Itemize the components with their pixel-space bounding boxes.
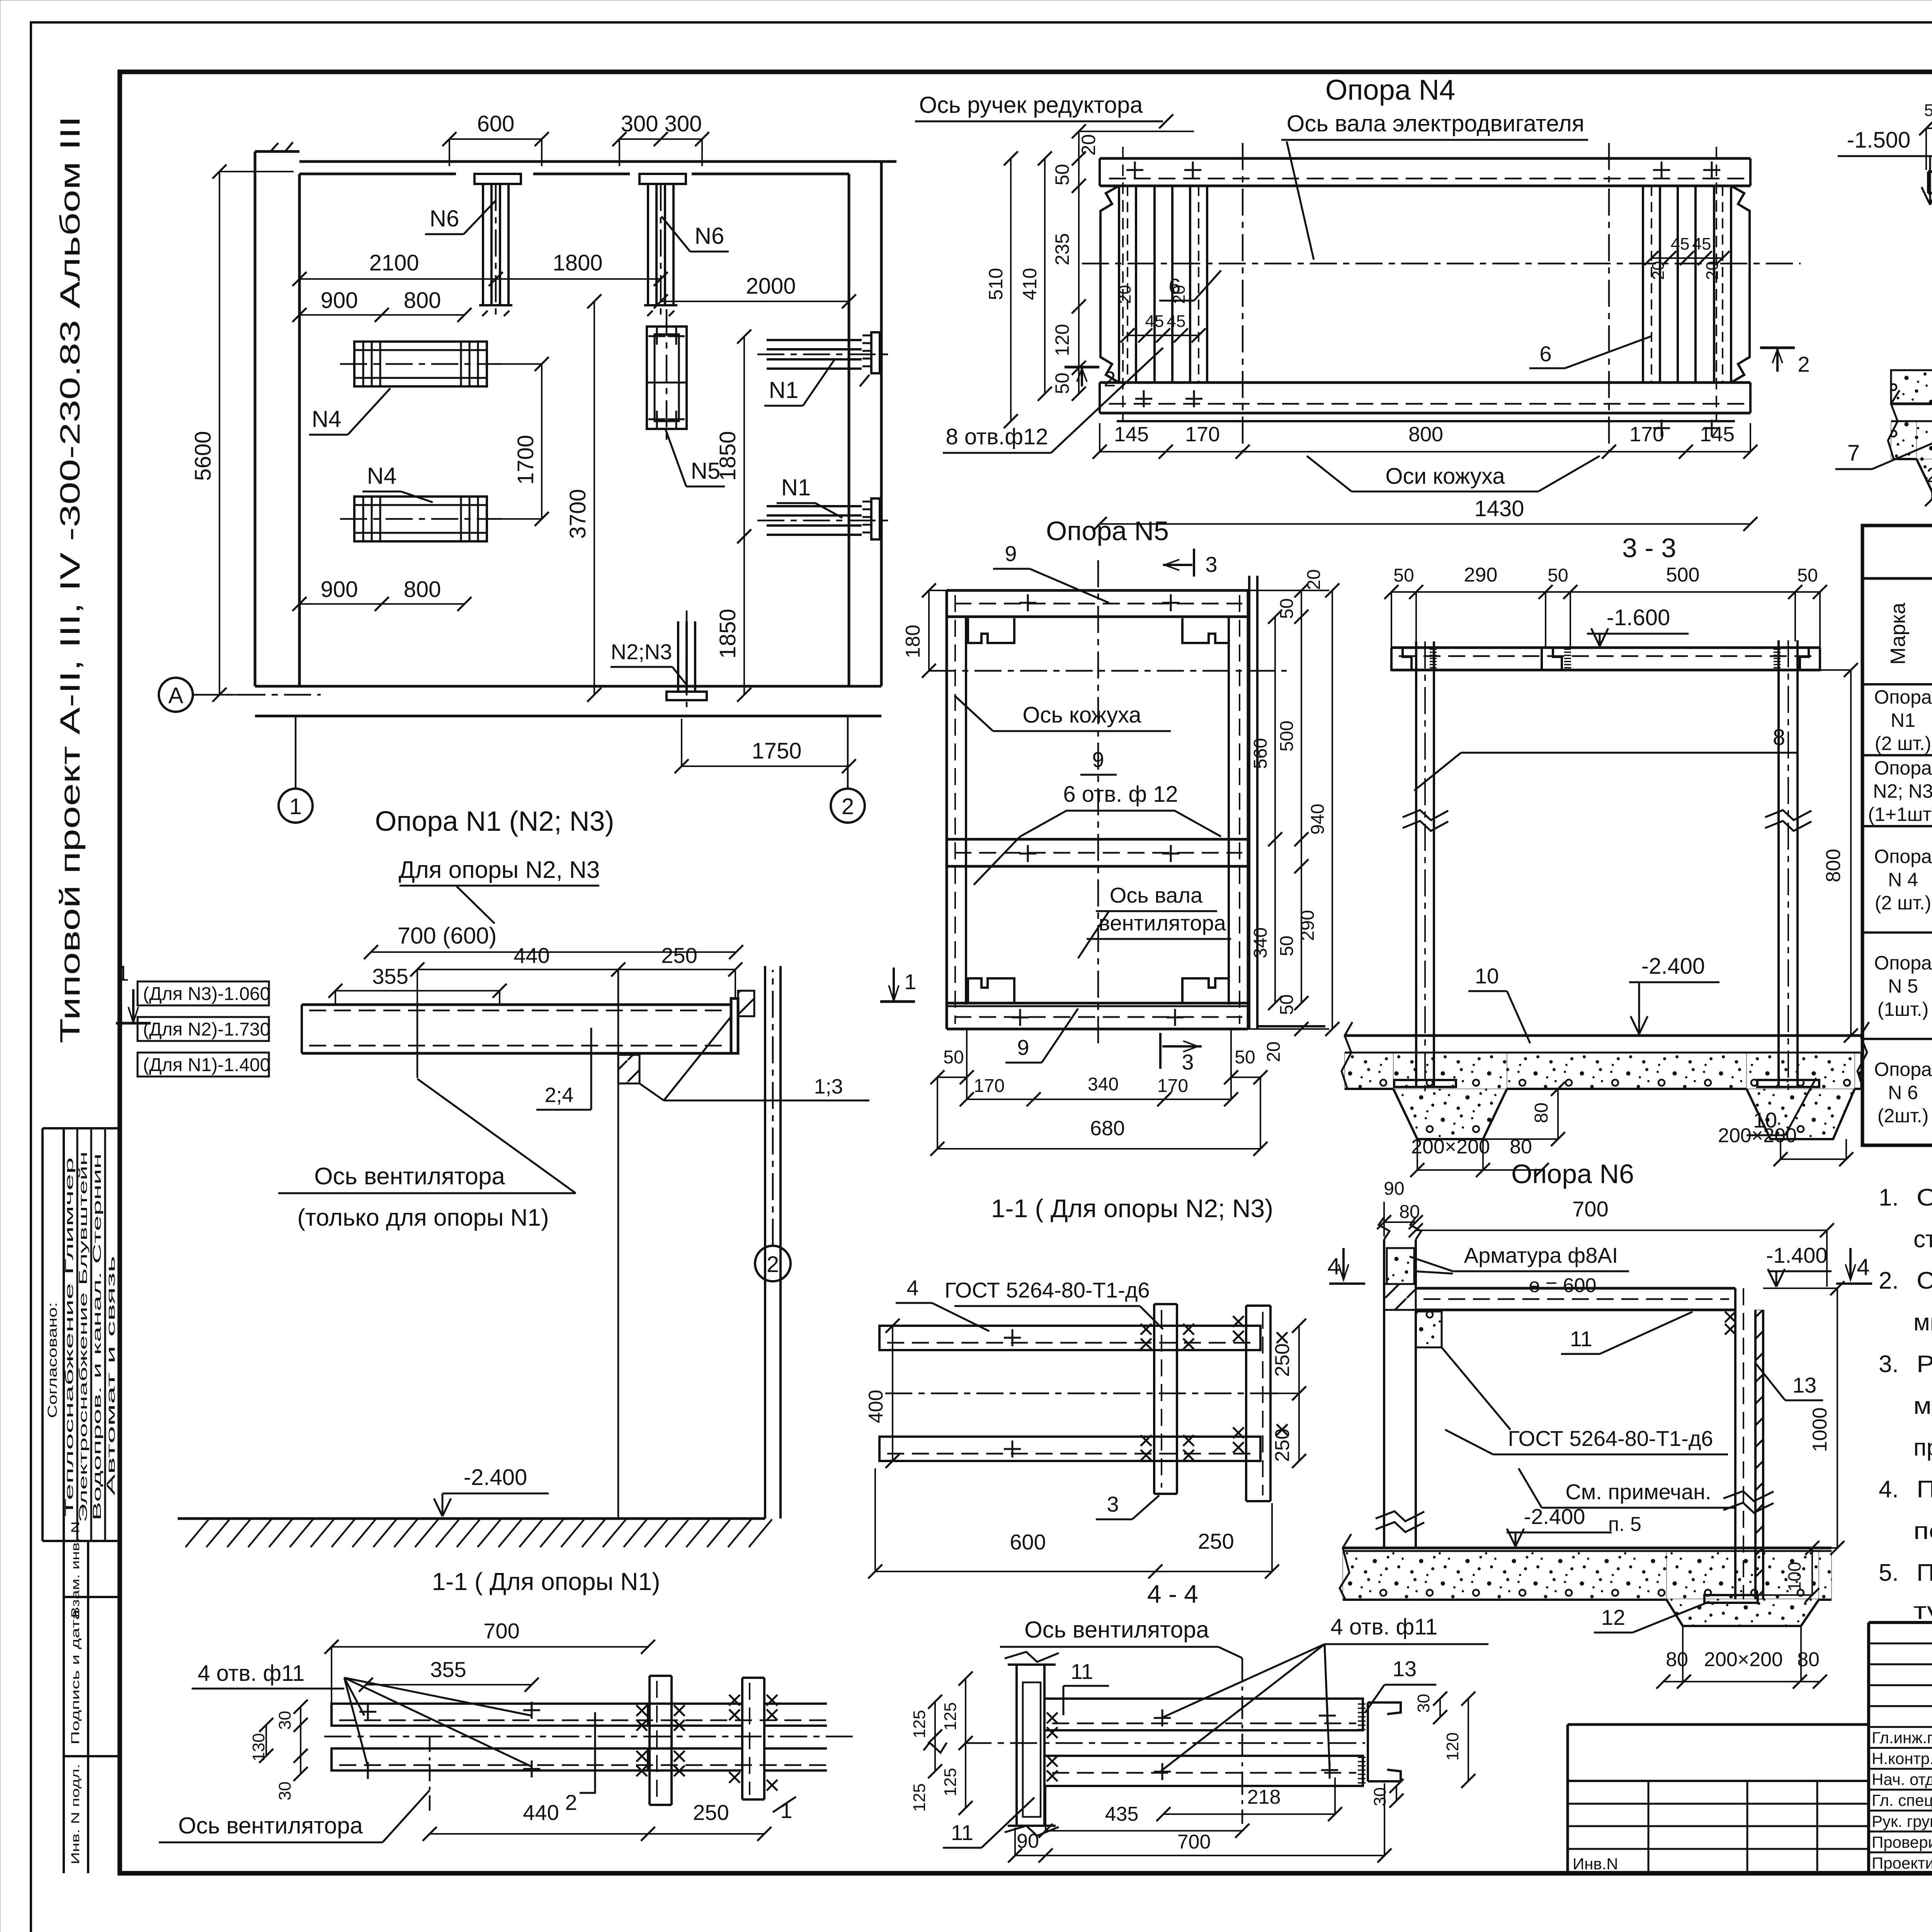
svg-text:После установки опор под: После установки опор под вентиляторы мет…: [1917, 1476, 1932, 1503]
title Опора N1 (N2 N3): [375, 806, 614, 837]
label Ось вентилятора (опора N1): [278, 1079, 576, 1231]
channel mid (1-1 N1): [636, 1676, 685, 1805]
label Ось кожуха (N5): [954, 696, 1171, 731]
dimension 50 50 (N5 bottom edges): [930, 1047, 1267, 1084]
dimension 80 200x200 80 (N6): [1656, 1626, 1827, 1689]
label 9 bottom: [1005, 1009, 1078, 1063]
svg-text:800: 800: [1408, 423, 1443, 446]
svg-text:Гл. спец.: Гл. спец.: [1872, 1791, 1932, 1810]
svg-text:1: 1: [117, 961, 129, 985]
dimension 250 250 (1-1 N2N3): [1270, 1319, 1306, 1468]
svg-text:После установки кронштейна: После установки кронштейна N6 в перегоро…: [1917, 1560, 1932, 1586]
svg-text:Опора N6: Опора N6: [1511, 1159, 1634, 1189]
label 11 (N6): [1561, 1312, 1692, 1354]
dimension 5600: [190, 165, 294, 702]
svg-text:50: 50: [1277, 598, 1297, 619]
table column Марка: [1868, 686, 1932, 1127]
svg-text:Согласовано:: Согласовано:: [45, 1302, 60, 1418]
axis кожуха left: [1242, 143, 1244, 452]
svg-text:Ось ручек редуктора: Ось ручек редуктора: [919, 92, 1143, 118]
svg-text:-2.400: -2.400: [1641, 954, 1705, 979]
svg-text:3 - 3: 3 - 3: [1622, 533, 1676, 563]
label ГОСТ 5264 (1-1 N2N3): [944, 1278, 1163, 1329]
support frame N5 right channel: [1229, 590, 1248, 1029]
svg-text:1750: 1750: [752, 738, 801, 764]
attachment grid left of stamp: [1568, 1725, 1869, 1873]
svg-text:125: 125: [910, 1710, 929, 1738]
bracket N1 upper (plan): [757, 332, 889, 373]
axis horizontal N5: [929, 670, 1287, 672]
svg-text:800: 800: [404, 577, 441, 602]
margin label Подпись и дата: [69, 1609, 82, 1745]
svg-text:125: 125: [910, 1783, 929, 1811]
margin label Типовой проект: [55, 116, 86, 1043]
bracket N2 N3 (plan): [667, 611, 707, 707]
left channel pair N4: [1100, 186, 1207, 383]
column 3-3 right: [1765, 640, 1811, 1095]
concrete floor 3-3: [1342, 1022, 1869, 1089]
svg-text:700: 700: [1572, 1197, 1608, 1221]
svg-text:Теплоснабжение Глимчер: Теплоснабжение Глимчер: [63, 1157, 76, 1517]
svg-text:ГОСТ 5264-80-Т1-д6: ГОСТ 5264-80-Т1-д6: [944, 1278, 1150, 1302]
svg-text:N 4: N 4: [1888, 869, 1918, 891]
svg-text:250: 250: [1271, 1344, 1294, 1377]
dimension 1750: [675, 719, 856, 773]
svg-text:400: 400: [865, 1390, 887, 1423]
svg-text:45: 45: [1692, 235, 1711, 253]
svg-text:680: 680: [1090, 1117, 1125, 1140]
svg-text:145: 145: [1700, 423, 1735, 446]
dimension 435 (4-4): [1039, 1787, 1249, 1838]
dimension 680 (N5 bottom): [930, 1077, 1267, 1156]
svg-text:2100: 2100: [369, 250, 419, 276]
dimension 1850 lower: [715, 529, 751, 702]
svg-text:1700: 1700: [513, 435, 538, 485]
svg-text:30: 30: [276, 1782, 294, 1801]
svg-text:N6: N6: [695, 223, 724, 249]
dimension 400 (1-1 N2N3): [865, 1319, 900, 1468]
level -1.500: [1838, 128, 1932, 205]
bracket N5 (plan): [647, 309, 687, 444]
svg-text:Электроснабжение Блувштейн: Электроснабжение Блувштейн: [77, 1151, 90, 1522]
dimension 700 (600): [364, 923, 743, 959]
axis circle 1: [279, 717, 313, 823]
title Опора N6: [1511, 1159, 1634, 1189]
dimension 170 340 170 (N5 bottom): [960, 1029, 1238, 1106]
plate lower (1-1 N1): [332, 1748, 827, 1779]
dimension 20 45 45 20 left cluster: [1116, 285, 1206, 343]
dimension 600 250 (1-1 N2N3): [868, 1468, 1279, 1578]
level -2.400 (3-3): [1629, 954, 1719, 1034]
svg-text:Инв. N подл.: Инв. N подл.: [69, 1764, 82, 1864]
svg-text:560: 560: [1250, 738, 1271, 769]
section mark 1 right: [880, 968, 917, 1002]
svg-text:9: 9: [1092, 747, 1104, 772]
svg-text:4: 4: [1857, 1254, 1869, 1280]
svg-text:при получении оборудован: при получении оборудования.: [1913, 1434, 1932, 1461]
svg-text:N6: N6: [430, 206, 459, 231]
level -2.400 left: [434, 1465, 549, 1516]
axis circle 2 lower: [755, 970, 791, 1281]
dimension 20 45 45 20 right cluster: [1645, 235, 1730, 280]
level -1.400 (N6): [1766, 1243, 1832, 1287]
labels Для N levels: [138, 981, 270, 1077]
svg-text:50: 50: [1235, 1047, 1255, 1068]
svg-text:N 5: N 5: [1888, 975, 1918, 997]
svg-text:(Для N2)-1.730: (Для N2)-1.730: [143, 1019, 270, 1040]
svg-text:13: 13: [1793, 1373, 1816, 1397]
svg-text:Н.контр.СС: Н.контр.СС: [1872, 1750, 1932, 1768]
svg-text:170: 170: [974, 1076, 1005, 1096]
svg-text:170: 170: [1629, 423, 1664, 446]
axis circle A: [159, 678, 321, 712]
section mark 2 left: [1065, 367, 1116, 391]
svg-text:180: 180: [902, 625, 924, 658]
svg-text:3: 3: [1205, 552, 1217, 577]
svg-text:125: 125: [941, 1768, 960, 1796]
svg-text:700: 700: [483, 1619, 519, 1643]
svg-text:5.: 5.: [1879, 1560, 1899, 1586]
svg-text:N1: N1: [1891, 709, 1915, 731]
ground hatch line: [178, 1519, 772, 1547]
svg-text:170: 170: [1157, 1076, 1188, 1096]
column bases 3-3: [1394, 1080, 1819, 1087]
support frame N5 top chord: [947, 590, 1248, 617]
svg-text:250: 250: [661, 943, 697, 968]
svg-text:50: 50: [943, 1047, 964, 1068]
svg-text:13: 13: [1393, 1656, 1417, 1681]
svg-text:20: 20: [1078, 134, 1099, 156]
svg-text:ми типа Э-42 ГОСТ 9467-75.: ми типа Э-42 ГОСТ 9467-75.: [1913, 1309, 1932, 1336]
svg-text:45: 45: [1671, 235, 1690, 253]
dimension 100 (N6): [1758, 1541, 1819, 1602]
margin label Взам инв N: [69, 1521, 82, 1618]
label 6 right: [1529, 336, 1651, 368]
label 2;4: [536, 1028, 591, 1110]
label 6 left: [1159, 270, 1221, 301]
svg-text:1000: 1000: [1809, 1407, 1831, 1452]
bottom chord N4: [1100, 383, 1750, 437]
dimension 80 (3-3 pit): [1483, 1082, 1565, 1146]
label 4 отв ф11 (1-1 N1): [192, 1661, 532, 1767]
svg-text:45: 45: [1145, 312, 1164, 331]
svg-text:200×200: 200×200: [1704, 1648, 1783, 1671]
svg-text:355: 355: [372, 964, 408, 988]
label 8 with leaders: [1414, 725, 1797, 791]
svg-text:ГОСТ 5264-80-Т1-д6: ГОСТ 5264-80-Т1-д6: [1508, 1426, 1713, 1451]
svg-text:Опора N1 (N2; N3): Опора N1 (N2; N3): [375, 806, 614, 837]
svg-text:2: 2: [1104, 367, 1116, 391]
svg-text:4 - 4: 4 - 4: [1147, 1580, 1198, 1608]
table header Марка: [1886, 602, 1910, 665]
dimension 20 50 500 50 290 (N5 right): [1248, 569, 1329, 1010]
note 4: [1879, 1476, 1932, 1544]
svg-text:700 (600): 700 (600): [398, 923, 497, 949]
svg-text:Для опоры N2, N3: Для опоры N2, N3: [399, 857, 600, 883]
channel left 11 (4-4): [1005, 1652, 1059, 1836]
post 13 (N6): [1723, 1288, 1774, 1599]
svg-text:1: 1: [904, 969, 916, 994]
svg-text:Опора: Опора: [1874, 757, 1932, 779]
svg-text:Проверил: Проверил: [1872, 1833, 1932, 1851]
axis vertical N5: [1097, 560, 1099, 1043]
svg-text:2: 2: [565, 1790, 577, 1815]
end plate Опора N1: [731, 991, 754, 1053]
svg-text:(2 шт.): (2 шт.): [1875, 733, 1931, 754]
dimension 900 800 lower: [293, 577, 471, 611]
column encasement 2-2 left: [1891, 370, 1932, 404]
label N6 no.1: [425, 201, 495, 234]
svg-text:50: 50: [1051, 164, 1073, 185]
svg-text:Рук. груп.: Рук. груп.: [1872, 1812, 1932, 1830]
margin label Теплоснабжение: [63, 1157, 76, 1517]
dimension 180 (N5): [902, 583, 947, 678]
label 4 (1-1 N2N3): [896, 1276, 989, 1331]
margin label Согласовано: [45, 1302, 60, 1418]
label См примечан (N6): [1519, 1468, 1735, 1536]
svg-text:80: 80: [1531, 1102, 1552, 1123]
svg-text:200×200: 200×200: [1927, 464, 1932, 487]
svg-text:N1: N1: [769, 377, 799, 403]
svg-text:7: 7: [1847, 440, 1860, 466]
svg-text:90: 90: [1017, 1830, 1039, 1852]
centerline (4-4): [964, 1742, 1365, 1744]
axis vertical (4-4): [1242, 1658, 1243, 1824]
svg-text:Взам. инв. N: Взам. инв. N: [69, 1521, 82, 1618]
label N4 no.2: [362, 463, 433, 502]
svg-text:А: А: [168, 683, 184, 708]
channel end 13 (4-4): [1358, 1702, 1401, 1783]
label Арматура ф8АI (N6): [1410, 1243, 1629, 1297]
dimension 355: [328, 964, 507, 1005]
svg-text:Опора N5: Опора N5: [1046, 516, 1169, 546]
svg-text:N5: N5: [691, 458, 721, 484]
svg-text:N4: N4: [312, 406, 342, 432]
svg-text:510: 510: [985, 268, 1007, 300]
dimension 145 170 800 170 145: [1093, 423, 1757, 459]
svg-text:N2; N3: N2; N3: [1873, 780, 1932, 802]
section mark 4 upper left: [1327, 1248, 1365, 1284]
svg-text:-2.400: -2.400: [1524, 1504, 1585, 1529]
svg-text:Ось вентилятора: Ось вентилятора: [1024, 1617, 1209, 1643]
svg-text:п. 5: п. 5: [1608, 1513, 1641, 1536]
label 8 отв ф12: [943, 348, 1163, 453]
svg-text:Ось вала электродвигателя: Ось вала электродвигателя: [1287, 111, 1584, 136]
dimension 600: [442, 111, 549, 166]
dimension 510 410 (N4 left): [985, 151, 1052, 428]
dimension 950 with 50 groups: [1919, 97, 1932, 170]
label 4 отв ф11 (4-4): [1161, 1614, 1488, 1771]
dimension 200x200 80 (2-2): [1925, 464, 1932, 506]
label N4 no.1: [309, 388, 390, 435]
dimension 560 340 (N5 right): [1250, 610, 1282, 1010]
level -1.600: [1587, 605, 1689, 646]
svg-text:120: 120: [1443, 1732, 1462, 1760]
axis кожуха right: [1608, 143, 1610, 452]
axis circle 2: [831, 717, 865, 823]
label 2 (1-1 N1): [565, 1712, 595, 1815]
svg-text:Ось кожуха: Ось кожуха: [1022, 702, 1141, 728]
plate upper (1-1 N1): [332, 1702, 827, 1726]
dimension 218 (4-4): [1156, 1777, 1342, 1821]
support frame N5 left channel: [947, 590, 966, 1029]
svg-text:50: 50: [1393, 565, 1414, 586]
svg-text:1;3: 1;3: [814, 1075, 843, 1098]
svg-text:2000: 2000: [746, 274, 796, 299]
wall line (elevation): [618, 966, 781, 1519]
plate lower (1-1 N2N3): [879, 1437, 1260, 1461]
label 11 lower (4-4): [943, 1798, 1034, 1848]
dimension 20 50 235 120 50 (N4 left): [1051, 124, 1194, 401]
channel inner (1-1 N2N3): [1141, 1304, 1194, 1494]
svg-text:200×200: 200×200: [1411, 1136, 1490, 1158]
section mark 2 right: [1760, 348, 1810, 376]
anchor hatch block (N6): [1384, 1284, 1416, 1310]
svg-text:30: 30: [1414, 1694, 1433, 1713]
svg-text:3.: 3.: [1879, 1351, 1899, 1378]
label 1;3: [664, 1075, 869, 1100]
svg-text:Ось вентилятора: Ось вентилятора: [314, 1163, 505, 1190]
margin label Водопров: [91, 1153, 104, 1520]
svg-text:4 отв. ф11: 4 отв. ф11: [1331, 1614, 1438, 1639]
svg-text:2: 2: [767, 1252, 779, 1277]
svg-text:Опора: Опора: [1874, 1058, 1932, 1080]
pedestal 3-3 right: [1507, 1053, 1861, 1139]
dimension 2100 1800: [293, 250, 668, 286]
label 9 top: [993, 541, 1109, 603]
label 13 (N6): [1756, 1364, 1823, 1400]
svg-text:1850: 1850: [715, 609, 740, 658]
svg-text:200×200: 200×200: [1718, 1124, 1797, 1147]
label Ось вентилятора (1-1 N1): [159, 1790, 430, 1842]
title 3-3: [1622, 533, 1676, 563]
title block grid: [1869, 1622, 1932, 1873]
console 2;4: [618, 1017, 731, 1100]
centerline (1-1 N1): [324, 1736, 859, 1738]
svg-text:Опора N4: Опора N4: [1325, 74, 1455, 106]
dimension 1430: [1093, 496, 1757, 531]
svg-text:90: 90: [1384, 1179, 1404, 1199]
svg-text:стен.: стен.: [1913, 1226, 1932, 1253]
axis ручек редуктора left: [1122, 147, 1124, 421]
svg-text:1-1 ( Для опоры N1): 1-1 ( Для опоры N1): [432, 1568, 660, 1595]
svg-text:218: 218: [1247, 1786, 1281, 1808]
svg-text:2;4: 2;4: [544, 1083, 573, 1107]
pedestal 3-3 left: [1345, 1053, 1507, 1139]
section mark 3 top: [1163, 549, 1218, 577]
svg-text:9: 9: [1005, 541, 1017, 566]
svg-text:1.: 1.: [1879, 1184, 1899, 1211]
margin label Электроснабжение: [77, 1151, 90, 1522]
svg-text:N4: N4: [367, 463, 397, 489]
svg-text:Соединение элементов опор п: Соединение элементов опор производить на…: [1917, 1267, 1932, 1294]
dimension 50 290 50 500 50 (3-3 top): [1384, 564, 1827, 648]
svg-text:Разметку и сверление отве: Разметку и сверление отверстий производи…: [1917, 1351, 1932, 1378]
svg-text:440: 440: [523, 1800, 559, 1825]
svg-text:700: 700: [1177, 1831, 1211, 1853]
svg-text:50: 50: [1924, 101, 1932, 120]
support frame N5 bottom chord: [947, 978, 1248, 1029]
title 4-4: [1147, 1580, 1198, 1608]
label 9 middle: [1080, 747, 1117, 775]
label 13 (4-4): [1365, 1656, 1436, 1713]
plate lower (4-4): [1044, 1756, 1363, 1786]
svg-text:30: 30: [1371, 1787, 1389, 1806]
fan axis line: [417, 1005, 418, 1078]
label Ось вентилятора (4-4): [1000, 1617, 1242, 1658]
svg-text:Подпись и дата: Подпись и дата: [69, 1609, 82, 1745]
svg-text:(1+1шт): (1+1шт): [1868, 803, 1932, 825]
svg-text:170: 170: [1185, 423, 1220, 446]
svg-text:800: 800: [1822, 849, 1845, 883]
svg-text:250: 250: [1198, 1529, 1234, 1553]
svg-text:5600: 5600: [190, 431, 216, 481]
label Ось вала вентилятора (N5): [1078, 883, 1231, 958]
svg-text:250: 250: [693, 1800, 729, 1825]
svg-text:(только для опоры N1): (только для опоры N1): [297, 1204, 549, 1231]
label ГОСТ 5264 (N6): [1445, 1426, 1728, 1454]
wall right (plan): [849, 162, 896, 686]
dimension 300 300: [612, 111, 709, 166]
dimension 200x200 80 (3-3 left): [1410, 1136, 1549, 1177]
svg-text:N2;N3: N2;N3: [611, 639, 672, 664]
svg-text:4: 4: [906, 1276, 918, 1300]
section mark 3 bottom: [1160, 1033, 1202, 1074]
svg-text:e = 600: e = 600: [1529, 1274, 1597, 1297]
svg-text:600: 600: [477, 111, 515, 136]
label Ось ручек редуктора (left): [915, 92, 1173, 128]
svg-text:2: 2: [1798, 352, 1810, 376]
wall concrete block (N6): [1387, 1248, 1414, 1284]
channel outer (1-1 N2N3): [1233, 1306, 1287, 1501]
pedestal 2-2 left: [1894, 422, 1932, 492]
label N1 upper: [764, 359, 835, 406]
svg-text:8: 8: [1773, 725, 1785, 750]
bracket N1 lower (plan): [757, 498, 889, 539]
svg-text:10: 10: [1475, 964, 1499, 988]
table Ведомость элементов grid: [1862, 526, 1932, 1145]
svg-text:600: 600: [1010, 1530, 1046, 1554]
svg-text:290: 290: [1464, 564, 1498, 586]
svg-text:поверхности окрасить масл: поверхности окрасить масляной краской за…: [1913, 1518, 1932, 1544]
bracket N4 no.1 (plan): [340, 342, 502, 386]
svg-text:20: 20: [1703, 261, 1722, 280]
label 12 (N6): [1594, 1602, 1709, 1633]
margin label Автомат: [105, 1256, 117, 1495]
centerline (1-1 N2N3): [885, 1393, 1281, 1395]
concrete floor (N6): [1340, 1534, 1832, 1600]
svg-text:4.: 4.: [1879, 1476, 1899, 1503]
label N5: [665, 429, 725, 486]
svg-text:80: 80: [1666, 1648, 1688, 1671]
svg-text:Проектир: Проектир: [1872, 1854, 1932, 1872]
svg-text:Инв.N: Инв.N: [1573, 1855, 1618, 1873]
dimension 700 (N6): [1409, 1197, 1834, 1287]
svg-text:340: 340: [1250, 927, 1271, 958]
svg-text:(2шт.): (2шт.): [1878, 1105, 1929, 1126]
bracket arm (N6): [1416, 1288, 1736, 1335]
dimension 2000: [654, 274, 856, 308]
plate upper (1-1 N2N3): [879, 1326, 1260, 1350]
dimension 90 700 (4-4): [1008, 1783, 1391, 1862]
svg-text:50: 50: [1548, 565, 1568, 586]
wall (N6): [1376, 1217, 1424, 1548]
beam 2-2: [1928, 172, 1932, 193]
note 2: [1879, 1267, 1932, 1336]
svg-text:11: 11: [951, 1820, 973, 1845]
svg-text:Опора: Опора: [1874, 686, 1932, 708]
svg-text:355: 355: [430, 1657, 466, 1682]
